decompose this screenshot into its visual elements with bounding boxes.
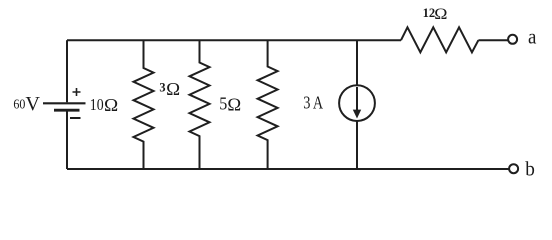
svg-text:a: a: [528, 25, 537, 49]
svg-text:3: 3: [159, 80, 165, 94]
svg-text:A: A: [313, 93, 323, 113]
svg-text:5: 5: [219, 94, 227, 114]
svg-text:b: b: [525, 159, 535, 181]
svg-text:V: V: [25, 93, 40, 115]
svg-text:60: 60: [13, 96, 25, 111]
svg-text:Ω: Ω: [434, 6, 447, 23]
svg-text:Ω: Ω: [104, 95, 118, 115]
svg-text:Ω: Ω: [227, 94, 241, 114]
svg-text:12: 12: [423, 6, 436, 20]
svg-text:3: 3: [303, 93, 310, 113]
svg-text:Ω: Ω: [166, 79, 180, 99]
svg-text:10: 10: [90, 95, 104, 114]
